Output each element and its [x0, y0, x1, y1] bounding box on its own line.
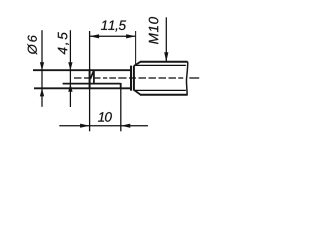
dimension 4,5: dim line — [69, 30, 71, 107]
node: left end face / shared extension line x=89.6 — [89, 31, 91, 131]
dimension 11,5: left arrow — [90, 34, 100, 38]
dimension Ø6: dim line — [41, 30, 43, 107]
slot inner wall — [93, 70, 95, 83]
dimension 4,5: top arrow — [68, 62, 72, 70]
dimension 4,5: bottom arrow — [68, 84, 72, 92]
wire: flat line y=83.6 + extension — [63, 83, 121, 85]
dimension 10: right arrow (outside) — [121, 124, 131, 128]
centerline — [74, 77, 199, 79]
slot diagonal — [90, 70, 94, 79]
chamfer cone top — [135, 62, 141, 66]
dimension M10: leader line — [165, 17, 167, 61]
label M10 — [149, 17, 159, 44]
flat end edge x=120.7 — [120, 83, 122, 89]
thread outer bottom — [140, 94, 187, 96]
label 10 — [98, 112, 112, 122]
break line at right end — [186, 62, 187, 96]
dimension 11,5: right arrow — [126, 34, 136, 38]
extension line x=120.8 down — [120, 89, 122, 131]
dimension Ø6: top arrow — [40, 62, 44, 70]
thread core bottom line — [134, 89, 186, 91]
dimension Ø6: bottom arrow — [40, 88, 44, 96]
collar edge 2 / thread start — [133, 66, 135, 91]
label 4,5 — [58, 32, 69, 54]
thread core top line — [134, 64, 186, 66]
wire: top edge of pin + extension line for dims — [33, 69, 131, 71]
wire: bottom edge of pin + extension — [34, 87, 131, 89]
chamfer cone bottom — [135, 90, 141, 94]
label 11,5 — [101, 21, 126, 32]
label Ø6 — [27, 35, 37, 55]
dimension 11,5: dim line — [90, 35, 136, 37]
extension line x=135.6 — [135, 31, 137, 65]
dimension 10: dim line — [59, 125, 148, 127]
dimension M10: arrow — [164, 52, 168, 62]
thread outer top — [140, 61, 188, 63]
dimension 10: left arrow (outside) — [80, 124, 90, 128]
collar edge 1 — [130, 66, 132, 91]
